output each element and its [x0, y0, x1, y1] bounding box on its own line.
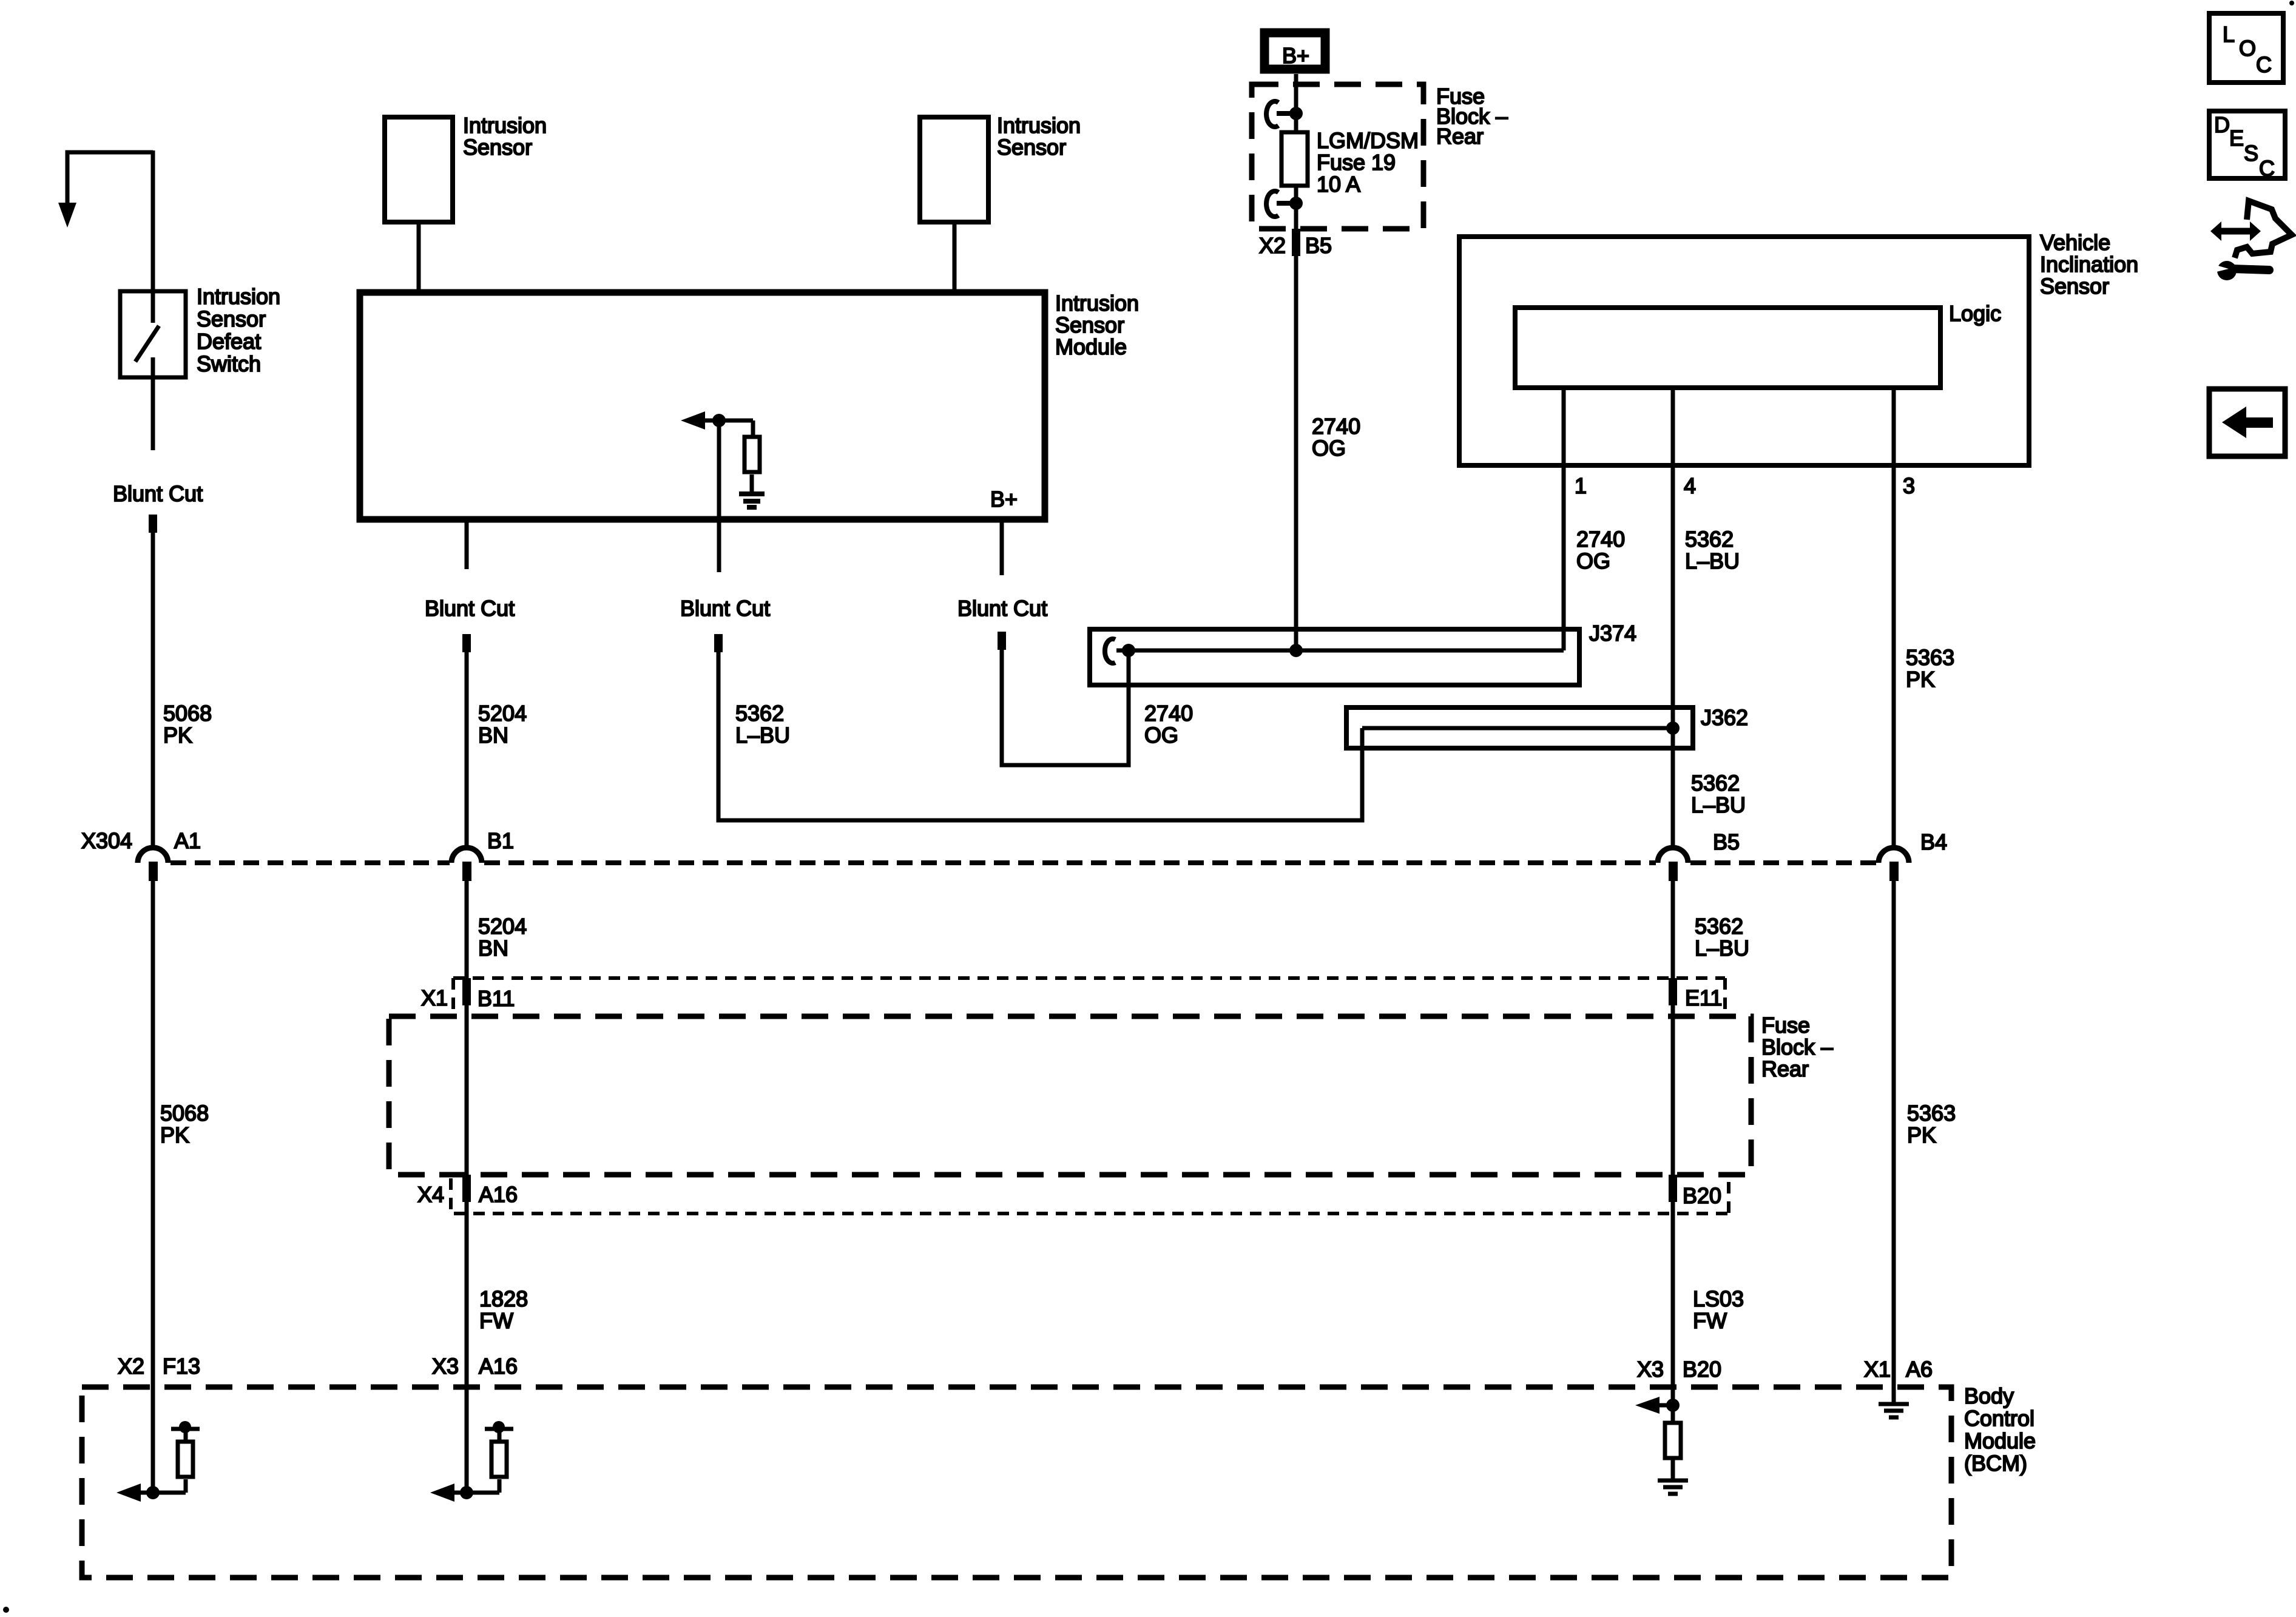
label: 5068 PK (above X304) [163, 701, 212, 748]
intrusion sensor box 1 [385, 117, 453, 222]
svg-text:5362: 5362 [1691, 771, 1740, 795]
pin 1 wire: logic to J374 [1562, 388, 1566, 650]
svg-text:B5: B5 [1713, 829, 1740, 854]
svg-text:Rear: Rear [1761, 1056, 1809, 1081]
label: 2740 OG (pin 1) [1576, 527, 1625, 573]
svg-text:F13: F13 [163, 1354, 200, 1379]
svg-text:L–BU: L–BU [1695, 936, 1749, 960]
label: 2740 OG (fuse wire) [1312, 414, 1360, 461]
svg-text:Vehicle: Vehicle [2040, 230, 2110, 255]
B+ battery feed box [1264, 33, 1325, 69]
svg-text:4: 4 [1684, 473, 1696, 498]
wire: sensor1 to module [417, 222, 421, 292]
ground symbol (A6) [1879, 1404, 1909, 1417]
svg-text:BN: BN [478, 723, 508, 748]
wire B4 below X304 to BCM [1892, 881, 1896, 1403]
wire B below X304 to BCM [465, 881, 469, 1493]
fuse block rear (lower) dashed box [389, 1016, 1751, 1175]
svg-text:(BCM): (BCM) [1964, 1451, 2027, 1476]
svg-text:Intrusion: Intrusion [997, 113, 1081, 138]
svg-text:5362: 5362 [1685, 527, 1734, 552]
BCM internal circuit A16: arrow, resistor pull-up [438, 1429, 513, 1493]
wire: top-left arrow feed to defeat switch [67, 152, 153, 204]
svg-text:X2: X2 [118, 1354, 144, 1379]
svg-text:Blunt Cut: Blunt Cut [680, 596, 770, 621]
svg-text:5362: 5362 [735, 701, 784, 726]
connector B1 at X304 [451, 828, 514, 881]
svg-text:5363: 5363 [1906, 645, 1954, 670]
svg-text:B4: B4 [1920, 829, 1947, 854]
fuse LGM/DSM Fuse 19 10A [1281, 132, 1308, 186]
connector curl (top) at fuse [1266, 101, 1296, 127]
svg-text:Rear: Rear [1436, 124, 1484, 149]
svg-text:C: C [2256, 52, 2272, 77]
svg-text:Module: Module [1964, 1428, 2036, 1453]
svg-text:B5: B5 [1305, 233, 1332, 258]
wire: fuse to J374 (2740 OG) [1294, 186, 1298, 650]
svg-text:Logic: Logic [1949, 301, 2001, 326]
label: 5363 PK (pin 3) [1906, 645, 1954, 692]
svg-text:X3: X3 [1637, 1357, 1664, 1382]
label: Vehicle Inclination Sensor [2040, 230, 2138, 299]
fuse block rear (lower) connector row X4 [451, 1178, 1729, 1214]
connector B4 at X304 [1879, 829, 1947, 881]
svg-text:Sensor: Sensor [1055, 312, 1124, 337]
svg-text:5362: 5362 [1695, 914, 1743, 939]
svg-text:E11: E11 [1685, 985, 1722, 1010]
module pin stub B (internal wire down) [717, 420, 721, 572]
svg-text:PK: PK [163, 723, 192, 748]
blunt cut cap (wire C) [714, 634, 723, 652]
svg-text:LS03: LS03 [1693, 1286, 1744, 1311]
svg-text:Body: Body [1964, 1383, 2014, 1408]
svg-text:B+: B+ [1282, 43, 1309, 68]
connector ticks at X4 row [462, 1175, 471, 1202]
J374 internal bus line [1116, 649, 1564, 653]
wire C: 5362 L-BU blunt cut to J362 [718, 650, 1362, 820]
svg-text:PK: PK [160, 1122, 189, 1147]
label: 5363 PK (below X304) [1907, 1101, 1956, 1147]
svg-text:B+: B+ [990, 487, 1018, 511]
svg-text:X2: X2 [1259, 233, 1286, 258]
label: Fuse Block - Rear (lower) [1761, 1013, 1833, 1081]
connector A1 at X304 [138, 828, 201, 881]
svg-text:X304: X304 [81, 828, 132, 853]
labels X3 B20 (BCM) [1637, 1357, 1721, 1382]
junction dot inside module [712, 414, 726, 427]
X304 dashed harness line seg 2 [484, 860, 1656, 865]
vehicle inclination sensor box [1459, 237, 2029, 465]
connector B5 at X304 [1658, 829, 1740, 881]
BCM internal circuit B20: arrow, resistor to ground [1644, 1405, 1681, 1479]
label: Intrusion Sensor Module [1055, 291, 1139, 359]
svg-text:Sensor: Sensor [463, 135, 532, 160]
junction dot J374 (fuse wire) [1289, 644, 1303, 657]
labels X3 A16 (BCM) [432, 1354, 518, 1379]
svg-text:2740: 2740 [1312, 414, 1360, 439]
labels X4 A16 B20 [417, 1182, 1721, 1208]
icon: LOC box [2209, 13, 2283, 83]
connector ticks at X1 row [462, 978, 471, 1005]
labels X1 B11 E11 [421, 985, 1722, 1011]
body control module BCM dashed box [82, 1387, 1951, 1578]
intrusion sensor defeat switch S1 [120, 291, 186, 450]
svg-text:O: O [2239, 36, 2256, 61]
intrusion sensor module U1 [360, 292, 1045, 519]
svg-text:BN: BN [478, 936, 508, 960]
svg-text:PK: PK [1906, 667, 1935, 692]
svg-text:L–BU: L–BU [735, 723, 790, 748]
svg-text:A16: A16 [479, 1182, 518, 1207]
wire: sensor2 to module [953, 222, 957, 292]
svg-text:FW: FW [479, 1308, 513, 1333]
svg-text:E: E [2229, 126, 2244, 150]
svg-text:A1: A1 [174, 828, 201, 853]
stray dot top-right [2289, 1, 2294, 5]
svg-text:3: 3 [1903, 473, 1915, 498]
internal circuit: arrow, resistor, ground inside module [692, 420, 760, 493]
junction dot J362 (pin 4 wire) [1666, 721, 1680, 735]
label: LS03 FW [1693, 1286, 1744, 1333]
X304 dashed harness line seg 1 [171, 860, 450, 865]
svg-text:LGM/DSM: LGM/DSM [1317, 128, 1419, 153]
svg-text:OG: OG [1312, 436, 1346, 461]
svg-text:L–BU: L–BU [1685, 549, 1740, 573]
svg-text:Block –: Block – [1761, 1035, 1833, 1059]
svg-text:L–BU: L–BU [1691, 792, 1746, 817]
svg-text:A16: A16 [479, 1354, 518, 1379]
svg-text:5068: 5068 [163, 701, 212, 726]
ground symbol (B20) [1658, 1480, 1688, 1494]
svg-text:B20: B20 [1683, 1357, 1721, 1382]
label: 5068 PK (below X304) [160, 1101, 209, 1147]
arrow head (down) top-left [58, 203, 76, 228]
label: 5204 BN (below X304) [478, 914, 527, 960]
svg-text:Intrusion: Intrusion [463, 113, 547, 138]
svg-text:10 A: 10 A [1317, 172, 1360, 197]
svg-text:L: L [2223, 22, 2235, 47]
icon: harness routing (arrow + outline + wrench) [2210, 201, 2292, 280]
svg-text:5204: 5204 [478, 701, 527, 726]
pin 4 wire: logic to X304 B5 [1671, 388, 1675, 849]
stray dot bottom-left [3, 1607, 9, 1613]
J374 curl [1105, 639, 1115, 663]
svg-text:5068: 5068 [160, 1101, 209, 1126]
label: 5362 L-BU (below J362) [1691, 771, 1746, 817]
junction dot J374 left (wire D) [1122, 644, 1135, 657]
svg-text:X3: X3 [432, 1354, 459, 1379]
svg-text:1828: 1828 [479, 1286, 528, 1311]
svg-text:2740: 2740 [1144, 701, 1193, 726]
svg-text:Blunt Cut: Blunt Cut [113, 481, 203, 506]
label: Fuse Block - Rear (top) [1436, 84, 1508, 149]
svg-text:X1: X1 [1864, 1357, 1891, 1382]
svg-text:OG: OG [1576, 549, 1610, 573]
svg-text:B1: B1 [487, 828, 514, 853]
svg-text:Sensor: Sensor [197, 306, 266, 331]
svg-text:X1: X1 [421, 985, 448, 1010]
connector tick X2/B5 [1292, 229, 1300, 256]
svg-text:Fuse 19: Fuse 19 [1317, 150, 1396, 175]
svg-text:X4: X4 [417, 1182, 444, 1207]
label: X2 | B5 (fuse block pins) [1259, 233, 1332, 258]
svg-text:D: D [2214, 112, 2230, 137]
label: 5362 L-BU (wire C) [735, 701, 790, 748]
label: 2740 OG (wire D) [1144, 701, 1193, 748]
svg-text:B11: B11 [478, 986, 515, 1011]
icon: back arrow box [2209, 389, 2285, 456]
module pin stub A (to blunt cut) [465, 519, 469, 569]
label: LGM/DSM Fuse 19 10 A [1317, 128, 1419, 197]
arrow head (left) inside module [681, 411, 705, 430]
splice pack J362 [1346, 707, 1693, 748]
module pin stub D (B+ pin) [1000, 519, 1004, 575]
svg-text:B20: B20 [1683, 1183, 1721, 1208]
connector curl (bottom) at fuse [1266, 191, 1296, 217]
svg-text:Fuse: Fuse [1761, 1013, 1810, 1038]
labels X2 F13 (BCM) [118, 1354, 200, 1379]
svg-text:Inclination: Inclination [2040, 252, 2138, 277]
svg-text:C: C [2259, 156, 2275, 181]
svg-text:5363: 5363 [1907, 1101, 1956, 1126]
svg-text:J362: J362 [1701, 705, 1748, 730]
svg-text:2740: 2740 [1576, 527, 1625, 552]
svg-text:Sensor: Sensor [997, 135, 1066, 160]
label: Body Control Module (BCM) [1964, 1383, 2036, 1476]
wire A: blunt cut to X304 A1 [151, 531, 155, 849]
svg-text:5204: 5204 [478, 914, 527, 939]
X304 dashed harness line seg 3 [1690, 860, 1876, 865]
svg-text:J374: J374 [1589, 621, 1636, 646]
svg-text:Intrusion: Intrusion [1055, 291, 1139, 316]
fuse block rear (top) dashed box [1252, 84, 1423, 229]
BCM internal circuit F13: arrow, resistor pull-up [124, 1429, 200, 1493]
svg-text:OG: OG [1144, 723, 1178, 748]
label: Intrusion Sensor (1) [463, 113, 547, 160]
svg-text:1: 1 [1575, 473, 1587, 498]
svg-text:Control: Control [1964, 1406, 2034, 1431]
junction dot (bottom curl) [1289, 197, 1303, 210]
svg-text:Sensor: Sensor [2040, 274, 2109, 299]
label: 5204 BN (above X304) [478, 701, 527, 748]
wire: down into defeat switch [151, 150, 155, 323]
svg-text:Intrusion: Intrusion [197, 284, 280, 309]
svg-text:FW: FW [1693, 1308, 1727, 1333]
labels X1 A6 (BCM) [1864, 1357, 1933, 1382]
blunt cut cap (wire B) [462, 634, 471, 652]
svg-text:Defeat: Defeat [197, 329, 261, 354]
logic box [1515, 308, 1940, 388]
intrusion sensor box 2 [920, 117, 988, 222]
blunt cut cap (wire A) [149, 515, 157, 533]
wire: B+ box to fuse [1294, 74, 1298, 132]
wire B5 below X304 to BCM [1671, 881, 1675, 1405]
svg-text:PK: PK [1907, 1122, 1936, 1147]
pin 3 wire: logic to X304 B4 [1892, 388, 1896, 849]
label: Intrusion Sensor (2) [997, 113, 1081, 160]
icon: DESC box [2209, 111, 2285, 181]
wire D: 2740 OG blunt cut to J374 [1002, 648, 1129, 765]
svg-text:Switch: Switch [197, 351, 261, 376]
fuse block rear (lower) connector row X1 [453, 978, 1725, 1012]
svg-text:A6: A6 [1906, 1357, 1933, 1382]
svg-text:Blunt Cut: Blunt Cut [957, 596, 1047, 621]
label: Intrusion Sensor Defeat Switch [197, 284, 280, 376]
label: 1828 FW [479, 1286, 528, 1333]
J362 internal bus line [1362, 726, 1673, 731]
label: 5362 L-BU (pin 4) [1685, 527, 1740, 573]
junction dot (top curl) [1289, 107, 1303, 120]
svg-text:S: S [2244, 141, 2258, 166]
blunt cut cap (wire D) [998, 632, 1006, 650]
svg-text:Module: Module [1055, 334, 1127, 359]
wire B: blunt cut to X304 B1 [465, 650, 469, 849]
label: 5362 L-BU (below X304) [1695, 914, 1749, 960]
wire A below X304 to BCM [151, 881, 155, 1493]
splice pack J374 [1090, 629, 1579, 685]
svg-text:Blunt Cut: Blunt Cut [425, 596, 515, 621]
ground symbol inside module [739, 494, 765, 507]
